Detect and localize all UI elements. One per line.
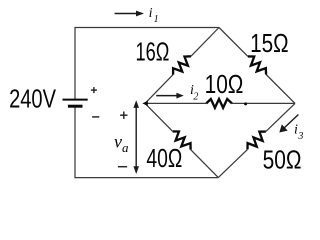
svg-text:50Ω: 50Ω xyxy=(263,147,302,175)
svg-text:1: 1 xyxy=(154,14,159,25)
svg-text:3: 3 xyxy=(297,131,303,142)
svg-text:10Ω: 10Ω xyxy=(205,69,244,99)
svg-text:i: i xyxy=(294,123,298,138)
svg-text:2: 2 xyxy=(193,91,198,102)
svg-text:40Ω: 40Ω xyxy=(146,145,182,173)
svg-text:a: a xyxy=(122,140,129,155)
svg-text:15Ω: 15Ω xyxy=(250,28,289,58)
svg-text:v: v xyxy=(114,131,122,151)
svg-text:240V: 240V xyxy=(9,85,56,113)
svg-text:16Ω: 16Ω xyxy=(136,38,170,66)
svg-text:i: i xyxy=(149,6,153,21)
